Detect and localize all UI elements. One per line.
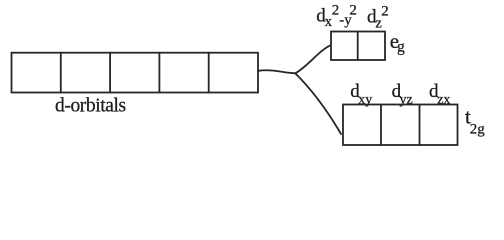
svg-text:g: g xyxy=(397,39,405,56)
svg-text:2: 2 xyxy=(349,3,357,19)
label: d z2 orbital name above right eg box xyxy=(367,4,389,32)
t2g level: row of 3 boxes xyxy=(343,105,458,146)
d-orbitals degenerate level: row of 5 boxes xyxy=(12,53,259,93)
svg-text:2: 2 xyxy=(332,3,340,19)
svg-text:xy: xy xyxy=(358,92,372,107)
svg-text:yz: yz xyxy=(400,92,413,107)
wire: branch rising to eg level xyxy=(295,45,331,73)
label: d yz orbital name above second t2g box xyxy=(392,81,413,107)
svg-text:2g: 2g xyxy=(470,121,486,137)
label: t2g level symbol xyxy=(465,105,485,138)
wire: branch descending to t2g level xyxy=(295,73,341,134)
svg-text:d-orbitals: d-orbitals xyxy=(55,96,126,117)
svg-text:zx: zx xyxy=(437,92,450,107)
svg-text:2: 2 xyxy=(381,4,389,20)
label: d x2-y2 orbital name above left eg box xyxy=(316,3,357,31)
label: d xy orbital name above first t2g box xyxy=(350,81,372,107)
label: eg level symbol xyxy=(390,29,405,56)
label: d zx orbital name above third t2g box xyxy=(429,81,450,108)
eg level: row of 2 boxes xyxy=(331,32,385,61)
wire: wavy connector from d-orbitals row to branch junction xyxy=(258,70,295,73)
